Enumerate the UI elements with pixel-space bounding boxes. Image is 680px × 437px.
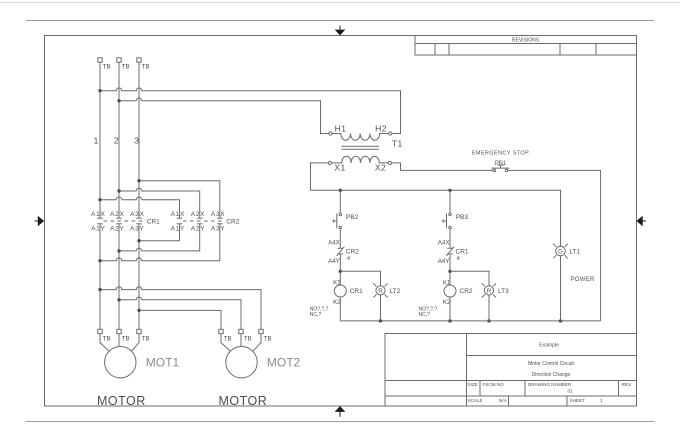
svg-text:MOT1: MOT1 xyxy=(146,356,180,370)
contact CR2 phase2 xyxy=(197,218,203,224)
lamp LT1 xyxy=(553,244,580,259)
motor MOT2 leads xyxy=(221,334,261,352)
junction L1 CR2 feed xyxy=(98,198,101,201)
svg-text:TB: TB xyxy=(142,65,150,71)
wire L2 to MOT2 middle xyxy=(119,297,241,329)
linkage CR1 dashed xyxy=(104,220,146,222)
svg-text:A4Y: A4Y xyxy=(328,258,340,265)
junction L3 CR2 feed xyxy=(137,179,140,182)
svg-text:A1X: A1X xyxy=(91,211,105,218)
junction LT2 bottom xyxy=(379,319,382,322)
svg-text:REVISIONS: REVISIONS xyxy=(512,38,540,44)
svg-text:A3Y: A3Y xyxy=(211,226,225,233)
NC contact A4X/A4Y CR2 xyxy=(328,240,359,265)
svg-text:TB: TB xyxy=(103,65,111,71)
svg-text:Direction Change: Direction Change xyxy=(532,372,571,378)
wire coil CR2 to bottom rail xyxy=(449,297,451,321)
junction L1 MOT2 xyxy=(98,288,101,291)
svg-text:SCALE: SCALE xyxy=(468,398,483,403)
svg-text:TB: TB xyxy=(122,65,130,71)
svg-text:PB2: PB2 xyxy=(346,214,359,221)
svg-text:X2: X2 xyxy=(375,163,386,173)
motor MOT1 leads xyxy=(100,334,139,352)
svg-text:1: 1 xyxy=(600,398,603,403)
svg-text:K1: K1 xyxy=(333,279,341,286)
wire L2 to CR2 contact A2X xyxy=(119,188,200,218)
terminal TB square L1 xyxy=(98,58,102,62)
wire contact to coil CR2 xyxy=(449,254,451,285)
junction L2 top xyxy=(117,99,120,102)
svg-text:A2X: A2X xyxy=(191,211,205,218)
wire X1 to control rail xyxy=(311,163,561,246)
wire tap to LT3 xyxy=(450,271,489,286)
NC contact A4X/A4Y CR1 xyxy=(438,240,469,265)
svg-text:CR1: CR1 xyxy=(147,218,160,225)
wire LT2 to bottom rail xyxy=(380,295,382,321)
wire tap to LT2 xyxy=(340,271,380,286)
wire LT1 to bottom rail xyxy=(560,256,562,321)
svg-text:CR1: CR1 xyxy=(350,288,363,295)
svg-text:MOT2: MOT2 xyxy=(267,356,301,370)
svg-text:NC,?: NC,? xyxy=(310,312,322,318)
wire line L2 xyxy=(118,62,120,329)
alignment arrow top xyxy=(335,26,346,36)
CR1 contact labels xyxy=(91,211,160,233)
svg-text:A3X: A3X xyxy=(211,211,225,218)
svg-text:POWER: POWER xyxy=(571,277,596,283)
svg-text:LT3: LT3 xyxy=(498,288,509,295)
svg-text:MOTOR: MOTOR xyxy=(219,394,268,408)
motor MOT1 xyxy=(105,347,180,378)
lamp LT3 xyxy=(482,283,509,297)
svg-text:4: 4 xyxy=(347,256,350,262)
svg-text:01: 01 xyxy=(567,389,573,394)
TB labels top xyxy=(103,65,150,71)
svg-text:CR2: CR2 xyxy=(226,218,239,225)
wire L2 to transformer H1 xyxy=(119,98,329,134)
svg-text:R: R xyxy=(378,288,383,295)
CR2 contact labels xyxy=(171,211,240,233)
terminal TB square L3 xyxy=(137,58,141,62)
svg-text:A2Y: A2Y xyxy=(191,226,205,233)
pushbutton PB3 xyxy=(443,213,468,229)
svg-text:TB: TB xyxy=(103,337,111,343)
svg-text:T1: T1 xyxy=(392,139,403,149)
svg-text:CR2: CR2 xyxy=(460,288,473,295)
bottom control rail xyxy=(340,320,600,322)
wire PB2 to contact A4 xyxy=(339,229,341,249)
svg-text:2: 2 xyxy=(114,136,119,146)
junction L1 top xyxy=(98,89,101,92)
terminal TB square L2 xyxy=(117,58,121,62)
svg-text:MOTOR: MOTOR xyxy=(97,394,146,408)
svg-text:CR2: CR2 xyxy=(346,249,359,256)
junction LT3 tap xyxy=(448,270,451,273)
motor MOT2 terminals xyxy=(219,329,272,342)
junction rail PB2 xyxy=(339,189,342,192)
title block xyxy=(385,334,637,407)
svg-text:A4X: A4X xyxy=(438,240,450,247)
svg-text:H1: H1 xyxy=(335,124,347,134)
junction LT2 tap xyxy=(339,270,342,273)
PB2 branch wire xyxy=(339,190,341,213)
svg-text:4: 4 xyxy=(457,256,460,262)
linkage CR2 dashed xyxy=(183,220,225,222)
svg-text:3: 3 xyxy=(134,136,139,146)
svg-text:A1Y: A1Y xyxy=(91,226,105,233)
wire X2 to PB1 xyxy=(392,163,494,171)
wire L1 to CR2 contact A1X xyxy=(100,197,180,218)
wire L1 to MOT2 right xyxy=(100,287,261,329)
wire LT3 to bottom rail xyxy=(488,295,490,321)
svg-text:TB: TB xyxy=(142,337,150,343)
alignment arrow bottom xyxy=(335,406,346,417)
svg-text:G: G xyxy=(558,248,563,255)
junction LT1 bottom xyxy=(559,319,562,322)
wire L3 to MOT2 left xyxy=(139,310,221,329)
PB3 branch wire xyxy=(449,190,451,213)
pushbutton PB1 xyxy=(492,161,510,172)
alignment arrow left xyxy=(35,216,45,227)
svg-text:A3X: A3X xyxy=(130,211,144,218)
svg-text:TB: TB xyxy=(264,337,272,343)
junction L2 CR2 feed xyxy=(117,189,120,192)
svg-text:A1X: A1X xyxy=(171,211,185,218)
svg-text:A2X: A2X xyxy=(110,211,124,218)
svg-text:A3Y: A3Y xyxy=(130,226,144,233)
revisions table xyxy=(415,36,637,56)
wire contact to coil CR1 xyxy=(339,254,341,285)
svg-text:FSCM NO: FSCM NO xyxy=(483,382,505,387)
svg-text:A2Y: A2Y xyxy=(110,226,124,233)
wire CR2 A2Y to L2 xyxy=(119,224,200,251)
contact CR2 phase3 xyxy=(217,218,223,224)
coil CR2 xyxy=(443,279,473,306)
svg-text:REV: REV xyxy=(622,382,632,387)
coil CR1 xyxy=(333,279,363,306)
wire CR2 A1Y to L3 xyxy=(139,224,180,241)
svg-text:N/A: N/A xyxy=(499,398,508,403)
svg-text:NC,?: NC,? xyxy=(419,312,431,318)
svg-text:LT1: LT1 xyxy=(570,249,581,256)
svg-text:A4X: A4X xyxy=(328,240,340,247)
svg-text:PB3: PB3 xyxy=(456,214,469,221)
junction L3 MOT2 xyxy=(137,309,140,312)
junction L1 return xyxy=(98,259,101,262)
svg-text:1: 1 xyxy=(94,136,99,146)
sheet top edge xyxy=(26,20,654,22)
svg-text:TB: TB xyxy=(244,337,252,343)
motor MOT1 terminals xyxy=(98,329,150,342)
contact CR1 phase1 xyxy=(97,218,103,224)
wire line L1 xyxy=(99,62,101,329)
wire line L3 xyxy=(138,62,140,329)
svg-text:PB1: PB1 xyxy=(495,161,507,167)
junction rail PB3 xyxy=(448,189,451,192)
junction L3 return xyxy=(137,239,140,242)
svg-text:SHEET: SHEET xyxy=(570,398,586,403)
svg-text:CR1: CR1 xyxy=(456,249,469,256)
wire PB1 to right rail down to bottom rail xyxy=(508,170,601,321)
junction L2 MOT2 xyxy=(117,298,120,301)
svg-text:R: R xyxy=(487,288,492,295)
drawing frame border xyxy=(45,36,637,407)
svg-text:TB: TB xyxy=(122,337,130,343)
alignment arrow right xyxy=(636,216,646,227)
wire L3 to CR2 contact A3X xyxy=(139,181,220,219)
pushbutton PB2 xyxy=(333,213,358,229)
svg-text:LT2: LT2 xyxy=(390,288,401,295)
contact CR1 phase2 xyxy=(116,218,122,224)
lamp LT2 xyxy=(373,283,400,297)
svg-text:A1Y: A1Y xyxy=(171,226,185,233)
svg-text:Example: Example xyxy=(539,343,559,349)
svg-text:Motor Control Circuit: Motor Control Circuit xyxy=(528,361,574,367)
junction LT3 bottom xyxy=(487,319,490,322)
motor MOT2 xyxy=(226,347,301,378)
contact CR1 phase3 xyxy=(136,218,142,224)
junction L2 return xyxy=(117,249,120,252)
wire L1 to transformer H2 xyxy=(100,88,401,134)
junction CR2 bottom xyxy=(448,319,451,322)
svg-text:H2: H2 xyxy=(375,124,387,134)
contact CR2 phase1 xyxy=(177,218,183,224)
svg-text:EMERGENCY STOP: EMERGENCY STOP xyxy=(472,151,529,157)
contact note CR2 xyxy=(419,307,438,318)
wire PB3 to contact A4 xyxy=(449,229,451,249)
svg-text:A4Y: A4Y xyxy=(438,258,450,265)
wire coil CR1 to bottom rail xyxy=(339,297,341,321)
wire CR2 A3Y to L1 xyxy=(100,224,220,261)
contact note CR1 xyxy=(310,307,329,318)
transformer T1 xyxy=(328,124,402,173)
svg-text:TB: TB xyxy=(224,337,232,343)
sheet bottom edge xyxy=(26,421,654,423)
svg-text:DRAWING NUMBER: DRAWING NUMBER xyxy=(528,382,572,387)
svg-text:SIZE: SIZE xyxy=(468,382,478,387)
svg-text:X1: X1 xyxy=(334,163,345,173)
svg-text:K1: K1 xyxy=(443,279,451,286)
page top hairline xyxy=(0,2,680,4)
